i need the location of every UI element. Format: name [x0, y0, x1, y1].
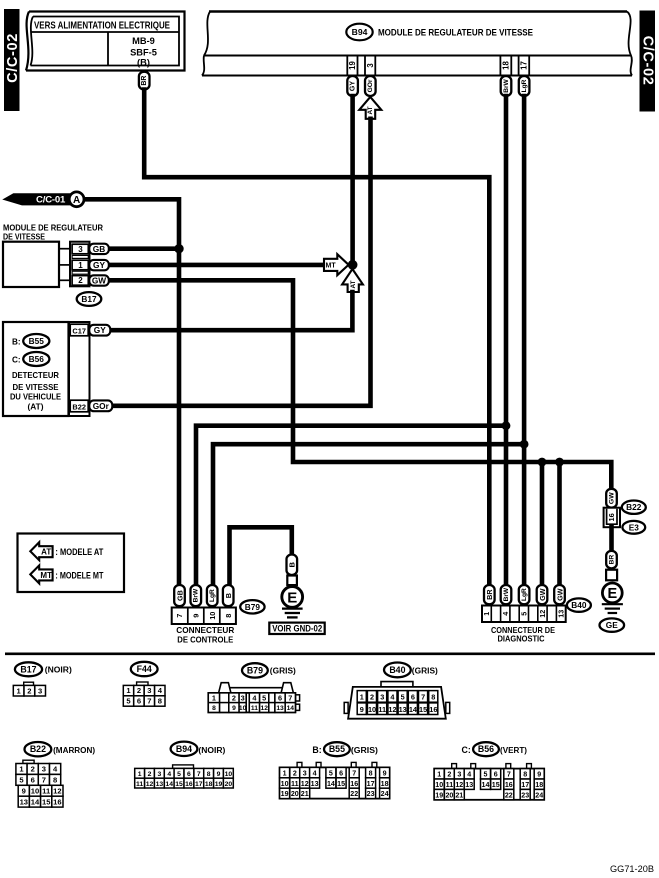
svg-text:16: 16 [607, 513, 616, 521]
svg-text:GOr: GOr [93, 401, 110, 411]
module box B17 [3, 242, 59, 287]
wire GW to diagnostic pin12 [540, 462, 545, 586]
svg-text:LgR: LgR [521, 588, 528, 601]
svg-text:18: 18 [205, 781, 213, 788]
svg-text:MODULE DE REGULATEUR DE VITESS: MODULE DE REGULATEUR DE VITESSE [378, 27, 533, 38]
wire C/C-01 A down to control pin7 GB [83, 199, 179, 585]
svg-text:20: 20 [225, 781, 233, 788]
svg-text:B:: B: [12, 338, 21, 347]
svg-text:4: 4 [467, 771, 471, 779]
svg-text:3: 3 [303, 769, 307, 777]
svg-text:6: 6 [411, 692, 415, 701]
svg-text:B56: B56 [29, 354, 45, 364]
svg-text:GW: GW [608, 492, 615, 504]
svg-text:GE: GE [606, 620, 618, 630]
svg-text:SBF-5: SBF-5 [130, 48, 157, 58]
svg-text:MODULE DE REGULATEUR: MODULE DE REGULATEUR [3, 224, 103, 233]
svg-text:DE VITESSE: DE VITESSE [3, 233, 45, 242]
separator line [5, 652, 655, 655]
wire label BrW pin18 [501, 76, 512, 96]
pin 18 of B94 [499, 56, 501, 76]
svg-text:BrW: BrW [503, 78, 510, 92]
svg-text:9: 9 [537, 771, 541, 779]
svg-text:(GRIS): (GRIS) [351, 745, 378, 755]
svg-text:14: 14 [409, 705, 418, 714]
ground symbol E (GND-02) [282, 587, 303, 608]
svg-text:(VERT): (VERT) [500, 745, 527, 755]
ground symbol E (GE) [602, 583, 622, 603]
wire label BR from SBF-5 [139, 72, 150, 90]
svg-text:A: A [73, 195, 80, 206]
connector GE label [600, 618, 625, 631]
arrow MT (on GY wire) [324, 254, 349, 275]
junction dot GB [174, 244, 183, 253]
wire GY B17 pin1 to MT arrow [108, 263, 325, 268]
svg-text:6: 6 [494, 771, 498, 779]
svg-text:8: 8 [523, 771, 527, 779]
svg-text:CONNECTEUR: CONNECTEUR [176, 625, 234, 635]
wire BrW control pin9 branch [196, 426, 506, 586]
svg-text:18: 18 [502, 61, 511, 70]
svg-text:3: 3 [147, 686, 151, 695]
wire label BR diagnostic connector [484, 585, 495, 604]
wire label GY [89, 260, 109, 270]
svg-text:13: 13 [399, 705, 407, 714]
svg-text:10: 10 [31, 786, 39, 795]
svg-text:1: 1 [138, 771, 142, 778]
svg-text:BrW: BrW [503, 587, 510, 601]
svg-text:B40: B40 [571, 600, 587, 610]
connector B22 label [622, 501, 646, 514]
svg-text:C/C-02: C/C-02 [5, 33, 21, 83]
pin B22 [70, 400, 88, 412]
svg-text:1: 1 [283, 769, 287, 777]
pin 3 of B94 [364, 56, 366, 76]
wire GW to diagnostic pin13 [557, 462, 562, 586]
connector bracket speed sensor [69, 322, 90, 416]
svg-text:8: 8 [431, 692, 435, 701]
svg-text:19: 19 [348, 61, 357, 70]
svg-text:15: 15 [492, 781, 500, 789]
svg-text:6: 6 [31, 775, 35, 784]
svg-text:(B): (B) [137, 58, 150, 68]
svg-text:B94: B94 [352, 27, 368, 37]
svg-text:12: 12 [388, 705, 396, 714]
pin 2 B17 [72, 276, 88, 286]
svg-text:F44: F44 [137, 664, 152, 674]
svg-text:6: 6 [278, 694, 282, 703]
legend box AT/MT [18, 534, 125, 593]
wire GW B17 pin2 to B22/E3 pin16 and diagnostic 12/13 [108, 280, 611, 489]
connector B40 label [567, 598, 591, 611]
svg-text:2: 2 [232, 694, 236, 703]
wire GOr B94 pin3 to B22 of speed sensor [112, 119, 371, 406]
junction dot BrW [502, 421, 511, 430]
svg-text:BR: BR [485, 589, 494, 600]
wire BR from power box to diagnostic pin1 [144, 90, 489, 586]
svg-text:24: 24 [535, 791, 543, 799]
svg-text:15: 15 [42, 797, 51, 806]
svg-text:16: 16 [429, 705, 437, 714]
svg-text:GG71-20B: GG71-20B [610, 864, 654, 875]
svg-text:(NOIR): (NOIR) [198, 745, 225, 755]
pin 19 of B94 [346, 56, 348, 76]
legend arrow MT [30, 565, 52, 583]
svg-text:7: 7 [197, 771, 201, 778]
svg-text:BrW: BrW [193, 588, 200, 602]
svg-text:(MARRON): (MARRON) [53, 745, 95, 755]
svg-text:14: 14 [482, 781, 490, 789]
ground connector box [287, 576, 297, 586]
svg-text:10: 10 [225, 771, 233, 778]
svg-text:12: 12 [146, 781, 154, 788]
svg-text:10: 10 [435, 781, 443, 789]
connector bracket B17 [70, 242, 90, 287]
svg-text:17: 17 [520, 61, 529, 70]
connector tab C/C-02 right [640, 11, 656, 112]
wire GY B94 pin19 down to MT junction [350, 96, 355, 263]
wire label LgR control connector [207, 585, 218, 606]
svg-text:GW: GW [555, 588, 564, 601]
wire label BrW diagnostic connector [501, 585, 512, 604]
pinout B79 (GRIS) [242, 663, 268, 677]
pin 1 B17 [72, 260, 88, 270]
svg-text:2: 2 [148, 771, 152, 778]
svg-text:5: 5 [519, 612, 528, 616]
svg-text:12: 12 [260, 705, 268, 712]
svg-text:13: 13 [276, 705, 284, 712]
svg-text:16: 16 [505, 781, 513, 789]
svg-text:7: 7 [288, 694, 292, 703]
wire label LgR pin17 [519, 76, 530, 96]
connector B56 label [23, 352, 49, 366]
svg-text:B94: B94 [176, 744, 192, 754]
svg-text:19: 19 [215, 781, 223, 788]
svg-text:14: 14 [165, 781, 173, 788]
wire GY C17 speed sensor to AT arrow [110, 292, 352, 330]
svg-text:7: 7 [147, 697, 151, 706]
wire label GW diagnostic connector [537, 585, 548, 604]
svg-text:10: 10 [281, 780, 289, 788]
svg-text:E: E [607, 586, 617, 602]
pinout F44 [131, 662, 158, 676]
svg-text:5: 5 [484, 771, 488, 779]
svg-text:B22: B22 [72, 402, 86, 411]
wire label GOr B22 [89, 400, 112, 411]
pinout B17 (NOIR) [15, 662, 42, 676]
svg-text:11: 11 [446, 781, 454, 789]
wire label B at ground [287, 555, 298, 576]
svg-text:GY: GY [93, 260, 105, 270]
svg-text:10: 10 [368, 705, 376, 714]
pinout B40 (GRIS) [384, 663, 411, 678]
pin C17 [70, 324, 88, 336]
svg-text:3: 3 [78, 245, 83, 254]
svg-text:7: 7 [175, 614, 184, 618]
svg-text:23: 23 [367, 790, 375, 798]
svg-text:7: 7 [421, 692, 425, 701]
pinout B22 (MARRON) [25, 742, 52, 756]
svg-text:13: 13 [20, 797, 28, 806]
connector B55 label [23, 334, 49, 348]
svg-text:11: 11 [136, 781, 143, 788]
svg-text:16: 16 [350, 780, 358, 788]
bracket separator [72, 271, 88, 274]
svg-text:1: 1 [78, 261, 83, 270]
pin 3 B17 [72, 244, 88, 254]
svg-text:GB: GB [175, 590, 184, 601]
svg-text:2: 2 [78, 276, 83, 285]
pin stubs B17 [59, 248, 70, 250]
wire label BrW control connector [191, 585, 202, 606]
svg-text:B17: B17 [20, 664, 36, 674]
svg-text:DE CONTROLE: DE CONTROLE [177, 635, 233, 645]
box VOIR GND-02 [269, 623, 324, 634]
svg-text:14: 14 [287, 705, 295, 712]
connector B17 label [77, 292, 102, 306]
svg-text:11: 11 [251, 705, 258, 712]
svg-text:GB: GB [93, 244, 105, 254]
svg-text:13: 13 [465, 781, 473, 789]
svg-text:DIAGNOSTIC: DIAGNOSTIC [498, 634, 545, 644]
wire label BR at ground [606, 551, 617, 569]
svg-text:16: 16 [185, 781, 193, 788]
svg-text:12: 12 [455, 781, 463, 789]
svg-text:5: 5 [329, 769, 333, 777]
svg-text:6: 6 [187, 771, 191, 778]
svg-text:18: 18 [535, 781, 543, 789]
svg-text:GY: GY [349, 81, 356, 91]
svg-text:B:: B: [312, 745, 321, 755]
svg-text:(NOIR): (NOIR) [45, 665, 72, 675]
svg-text:(GRIS): (GRIS) [270, 666, 296, 676]
svg-text:8: 8 [207, 771, 211, 778]
svg-text:15: 15 [175, 781, 183, 788]
wire label GW diagnostic connector [554, 585, 565, 604]
connector B79 label [240, 600, 264, 613]
svg-text:3: 3 [241, 694, 245, 703]
svg-text:GW: GW [538, 588, 547, 601]
svg-text:3: 3 [38, 686, 42, 695]
svg-text:8: 8 [53, 775, 57, 784]
svg-text:MT: MT [40, 571, 52, 580]
svg-text:9: 9 [360, 705, 364, 714]
wire label GY pin19 [347, 76, 358, 96]
svg-text:(AT): (AT) [28, 402, 44, 411]
svg-text:17: 17 [367, 780, 375, 788]
svg-text:C17: C17 [72, 326, 86, 335]
svg-text:13: 13 [311, 780, 319, 788]
svg-text:8: 8 [158, 697, 162, 706]
svg-text:(GRIS): (GRIS) [412, 666, 438, 676]
svg-text:VERS ALIMENTATION ELECTRIQUE: VERS ALIMENTATION ELECTRIQUE [34, 20, 170, 31]
svg-text:4: 4 [313, 769, 317, 777]
pin 17 of B94 [518, 56, 520, 76]
svg-text:2: 2 [137, 686, 141, 695]
node A circle [69, 192, 84, 207]
svg-text:LgR: LgR [521, 79, 528, 92]
pinout B94 (NOIR) [171, 742, 198, 756]
wire B control pin8 to ground GND-02 [230, 527, 292, 585]
svg-text:4: 4 [501, 612, 510, 616]
svg-text:11: 11 [42, 786, 51, 795]
junction dot LgR [520, 440, 529, 449]
wire label GY C17 [89, 325, 110, 336]
svg-text:9: 9 [22, 786, 26, 795]
junction dot GY/MT/AT [348, 260, 358, 270]
svg-text:E: E [287, 589, 297, 606]
svg-text:9: 9 [383, 769, 387, 777]
pin 16 connector B22/E3 [604, 508, 620, 528]
wire BrW B94 pin18 down to diagnostic pin4 [504, 96, 509, 586]
svg-text:12: 12 [301, 780, 309, 788]
svg-text:B56: B56 [478, 744, 494, 754]
svg-text:8: 8 [224, 614, 233, 618]
ground connector box right [606, 570, 617, 581]
svg-text:C:: C: [12, 356, 21, 365]
svg-text:2: 2 [293, 769, 297, 777]
svg-text:B17: B17 [81, 294, 97, 304]
svg-text:14: 14 [327, 780, 335, 788]
svg-text:13: 13 [557, 610, 566, 618]
svg-text:8: 8 [369, 769, 373, 777]
svg-text:4: 4 [167, 771, 171, 778]
svg-text:1: 1 [437, 771, 441, 779]
svg-text:19: 19 [281, 790, 289, 798]
svg-text:17: 17 [521, 781, 529, 789]
svg-text:9: 9 [217, 771, 221, 778]
connector row CONNECTEUR DE DIAGNOSTIC [482, 606, 566, 623]
svg-text:15: 15 [419, 705, 427, 714]
svg-text:7: 7 [42, 775, 46, 784]
connector tab C/C-02 left [4, 9, 20, 111]
wire label GW [89, 275, 109, 285]
wire pin16 to ground [609, 527, 614, 551]
svg-text:1: 1 [212, 694, 216, 703]
svg-text:B22: B22 [30, 744, 46, 754]
svg-text:LgR: LgR [209, 589, 216, 602]
svg-text:7: 7 [352, 769, 356, 777]
svg-text:7: 7 [507, 771, 511, 779]
wire LgR B94 pin17 down to diagnostic pin5 [522, 96, 527, 586]
svg-text:5: 5 [177, 771, 181, 778]
svg-text:14: 14 [31, 797, 40, 806]
svg-text:10: 10 [208, 612, 217, 620]
svg-text:3: 3 [457, 771, 461, 779]
svg-text:1: 1 [360, 692, 364, 701]
svg-text:B: B [224, 593, 233, 598]
svg-text:20: 20 [445, 791, 453, 799]
arrow AT (middle, to speed sensor C17) [342, 269, 363, 292]
svg-text:18: 18 [381, 780, 389, 788]
junction dot GW-2 [555, 458, 564, 467]
svg-text:B55: B55 [29, 336, 45, 346]
svg-text:2: 2 [27, 686, 31, 695]
svg-text:16: 16 [53, 797, 61, 806]
svg-text:5: 5 [262, 694, 266, 703]
wire label GB [89, 244, 109, 254]
svg-text:: MODELE AT: : MODELE AT [55, 547, 104, 557]
svg-text:5: 5 [401, 692, 405, 701]
svg-text:22: 22 [505, 791, 513, 799]
svg-text:3: 3 [380, 692, 384, 701]
wire label LgR diagnostic connector [519, 585, 530, 604]
svg-text:GW: GW [92, 276, 106, 286]
svg-text:2: 2 [447, 771, 451, 779]
svg-text:3: 3 [366, 63, 375, 68]
svg-text:DU VEHICULE: DU VEHICULE [10, 393, 61, 402]
svg-text:15: 15 [337, 780, 345, 788]
connector B94 label [346, 24, 372, 41]
svg-text:VOIR GND-02: VOIR GND-02 [272, 624, 322, 634]
detecteur de vitesse box (B55/B56) [3, 322, 69, 416]
svg-text:AT: AT [367, 106, 374, 114]
svg-text:24: 24 [381, 790, 389, 798]
svg-text:C/C-01: C/C-01 [36, 195, 66, 206]
svg-text:BR: BR [141, 76, 148, 86]
bracket separator [72, 255, 88, 258]
svg-text:9: 9 [192, 614, 201, 618]
wire LgR control pin10 branch [213, 444, 524, 585]
svg-text:GOr: GOr [367, 79, 374, 92]
svg-text:20: 20 [291, 790, 299, 798]
svg-text:DE VITESSE: DE VITESSE [13, 383, 60, 392]
connector row CONNECTEUR DE CONTROLE [172, 608, 236, 625]
wire label GOr pin3 [365, 76, 376, 96]
svg-text:23: 23 [521, 791, 529, 799]
svg-text:11: 11 [378, 705, 386, 714]
svg-text:13: 13 [156, 781, 164, 788]
svg-text:12: 12 [538, 610, 547, 618]
svg-text:AT: AT [350, 280, 357, 288]
svg-text:3: 3 [157, 771, 161, 778]
svg-text:B: B [288, 561, 297, 567]
svg-text:BR: BR [608, 555, 615, 565]
svg-text:3: 3 [42, 765, 46, 774]
svg-text:MB-9: MB-9 [132, 36, 155, 46]
svg-text:6: 6 [339, 769, 343, 777]
wire GB B17 pin3 to junction [108, 246, 179, 251]
svg-text:C/C-02: C/C-02 [640, 36, 656, 86]
wire label GW pin16 [606, 489, 617, 508]
legend arrow AT [30, 542, 52, 560]
svg-text:21: 21 [301, 790, 309, 798]
svg-text:6: 6 [137, 697, 141, 706]
svg-text:11: 11 [291, 780, 299, 788]
svg-text:22: 22 [350, 790, 358, 798]
svg-text:B55: B55 [329, 744, 345, 754]
svg-text:21: 21 [455, 791, 463, 799]
wire label B control connector [223, 585, 234, 606]
connector E3 label [622, 521, 645, 534]
svg-text:17: 17 [195, 781, 203, 788]
wire label GB control connector [174, 585, 185, 606]
svg-text:12: 12 [53, 786, 61, 795]
svg-text:MT: MT [326, 263, 337, 270]
svg-text:8: 8 [212, 705, 216, 712]
svg-text:B79: B79 [247, 665, 263, 675]
svg-text:B40: B40 [389, 665, 405, 675]
svg-text:E3: E3 [629, 522, 640, 532]
svg-text:C:: C: [462, 745, 471, 755]
svg-text:B79: B79 [245, 602, 261, 612]
bus bar B94 MODULE DE REGULATEUR DE VITESSE [209, 10, 627, 12]
arrow AT (top, on GOr wire) [359, 97, 381, 119]
svg-text:DETECTEUR: DETECTEUR [12, 371, 59, 380]
svg-text:1: 1 [482, 612, 491, 616]
svg-text:19: 19 [435, 791, 443, 799]
svg-text:9: 9 [232, 705, 236, 712]
